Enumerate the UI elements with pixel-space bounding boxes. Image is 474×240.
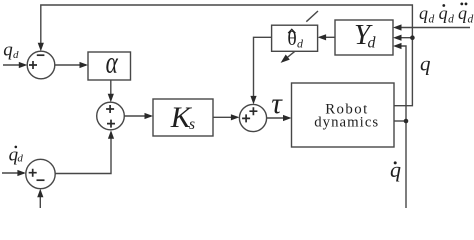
svg-text:d: d [429,13,435,25]
svg-text:d: d [448,13,454,25]
svg-text:d: d [468,13,474,25]
svg-text:d: d [17,152,23,164]
svg-text:q: q [390,157,401,182]
svg-text:q: q [458,3,467,23]
svg-text:d: d [368,35,377,52]
svg-text:q: q [3,39,13,60]
svg-text:d: d [297,37,304,51]
svg-text:q: q [419,3,428,23]
svg-text:s: s [189,116,195,133]
svg-text:q: q [420,52,431,76]
svg-text:d: d [13,49,19,61]
svg-text:θ: θ [287,29,296,50]
svg-text:τ: τ [271,88,283,120]
svg-text:α: α [106,46,119,80]
svg-text:dynamics: dynamics [314,115,378,131]
